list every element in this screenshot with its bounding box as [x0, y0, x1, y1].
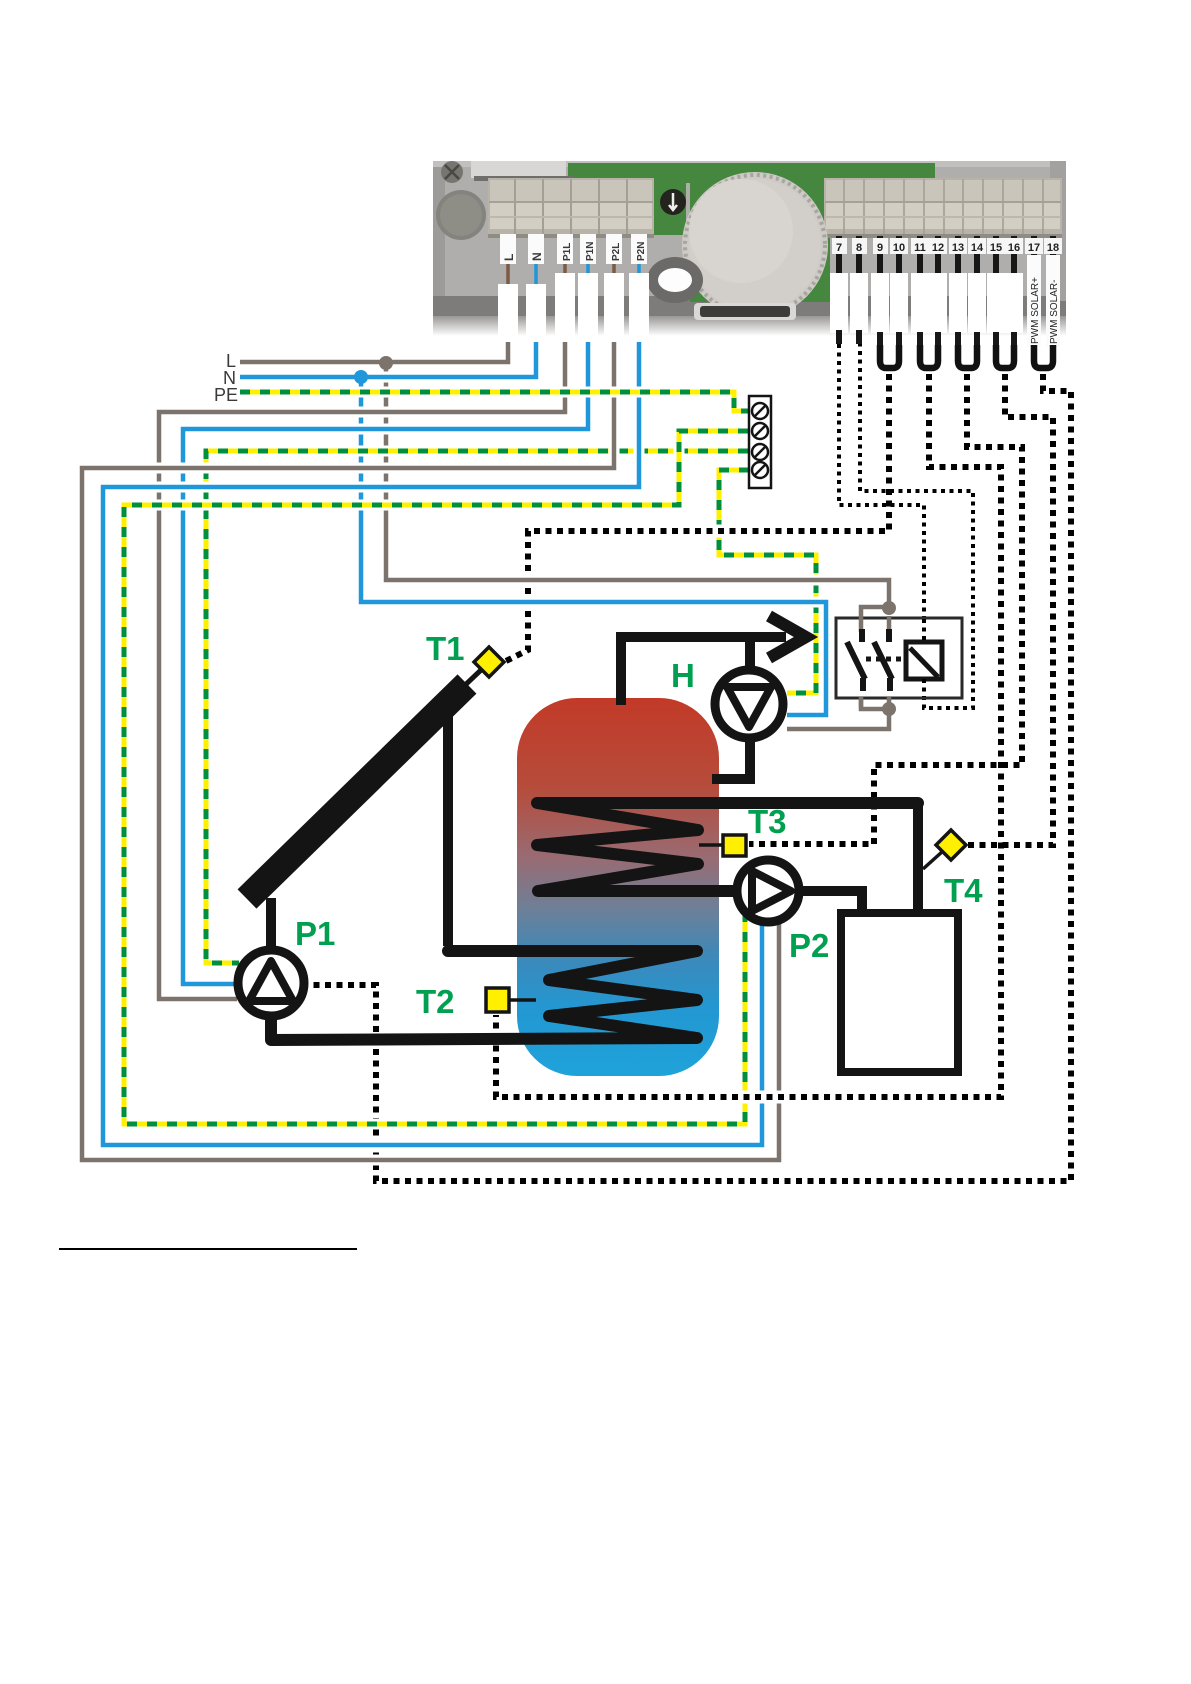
pipe collector supply to pump P1: [266, 898, 276, 952]
svg-text:N: N: [530, 252, 544, 261]
sensor wire T2 to terminals 11-12: [496, 374, 1053, 1097]
terminal tag N: [528, 234, 544, 264]
pump P2: [737, 860, 799, 922]
svg-text:PWM SOLAR-: PWM SOLAR-: [1049, 280, 1060, 344]
pump P1: [238, 950, 304, 1016]
screw with arrow: [660, 189, 686, 215]
wire P2L: [82, 342, 779, 1160]
wire PE pump P1: [206, 451, 748, 963]
terminal number tags 7-18: [832, 238, 1062, 254]
wire N to pump H: [361, 379, 826, 715]
svg-text:17: 17: [1028, 242, 1040, 254]
relay linkage: [866, 657, 906, 662]
sensor T2: [486, 988, 536, 1012]
sensor wire T1 to terminals 9-10: [311, 344, 1071, 1181]
screw top-left: [441, 161, 463, 183]
right black wire stubs below masks: [839, 330, 1014, 348]
svg-text:P1N: P1N: [585, 242, 596, 261]
wire PE to pump H: [719, 470, 816, 693]
left wire stubs: [508, 236, 639, 284]
relay coil: [906, 642, 942, 679]
pipe pump H return to tank: [712, 736, 750, 779]
wire P1L: [159, 342, 565, 999]
pipe tank top riser: [616, 632, 626, 705]
pipe collector to lower coil: [443, 690, 453, 946]
svg-text:15: 15: [990, 242, 1002, 254]
svg-text:T2: T2: [416, 983, 455, 1020]
terminal tag P1N: [580, 234, 596, 264]
left terminal block: [488, 178, 654, 236]
svg-text:P2: P2: [789, 927, 829, 964]
arrowhead: [769, 616, 806, 658]
sensor T1: [474, 647, 504, 677]
storage tank: [517, 698, 719, 1076]
svg-text:P1L: P1L: [562, 243, 573, 261]
right wire stubs terminals 7-18: [839, 236, 1053, 274]
svg-text:13: 13: [952, 242, 964, 254]
svg-text:12: 12: [932, 242, 944, 254]
jumper U terminals 17-18: [1034, 345, 1053, 368]
jumper U terminals 15-16: [996, 345, 1014, 368]
white mask channels right: [830, 273, 1023, 333]
svg-text:7: 7: [836, 242, 842, 254]
pipe riser to boiler: [913, 800, 923, 913]
pump H: [715, 670, 783, 738]
svg-text:11: 11: [914, 242, 926, 254]
jumper U terminals 9-10: [880, 345, 899, 368]
svg-text:T1: T1: [426, 630, 465, 667]
sensor wire T3 to terminals 13-14: [749, 374, 1022, 844]
relay coil wire terminal 7: [839, 344, 924, 641]
node L junction: [379, 356, 393, 370]
wire P2N: [103, 342, 762, 1145]
terminal tag P2L: [606, 234, 622, 264]
svg-text:P2L: P2L: [611, 243, 622, 261]
svg-text:PE: PE: [214, 385, 238, 405]
wire relay output to pump H: [787, 698, 889, 729]
svg-text:16: 16: [1008, 242, 1020, 254]
svg-text:14: 14: [971, 242, 984, 254]
footnote rule: [59, 1248, 357, 1250]
PWM wire terminals 17-18 to pump P1: [311, 374, 1071, 1181]
controller photo body: [433, 161, 1066, 301]
bottom connector slot: [694, 303, 796, 320]
node relay top junction: [882, 601, 896, 615]
wire relay contact branch: [861, 607, 889, 619]
buzzer disc: [682, 172, 828, 318]
svg-text:8: 8: [856, 242, 862, 254]
wire PE pump P2: [124, 431, 748, 1124]
svg-text:9: 9: [877, 242, 883, 254]
pipe branch to pump H: [745, 637, 755, 672]
svg-text:P2N: P2N: [636, 242, 647, 261]
washer left: [436, 190, 486, 240]
white mask channels left: [498, 273, 649, 342]
PE terminal strip: [749, 396, 771, 488]
sensor T3: [699, 835, 746, 856]
node N junction: [354, 370, 368, 384]
relay grey stubs top: [861, 616, 889, 632]
upper heat exchanger coil: [537, 803, 918, 891]
relay contact 2: [874, 629, 892, 691]
wire N bus: [240, 342, 536, 377]
svg-text:10: 10: [893, 242, 905, 254]
wire P1N: [183, 342, 588, 984]
oval grommet: [647, 257, 703, 303]
svg-text:PWM SOLAR+: PWM SOLAR+: [1030, 277, 1041, 344]
terminal tag L: [500, 234, 516, 264]
svg-text:T3: T3: [748, 803, 787, 840]
lower heat exchanger coil: [271, 951, 697, 1040]
svg-text:L: L: [502, 254, 516, 261]
relay coil wire inside box: [922, 619, 926, 697]
pipe pump P2 to boiler: [797, 891, 862, 913]
relay coil return wire terminal 8: [860, 344, 973, 708]
wire L feed to relay: [386, 364, 889, 608]
pipe flow to heating with arrow: [616, 632, 786, 642]
relay grey stubs bottom: [861, 697, 889, 710]
terminal tag P2N: [631, 234, 647, 264]
relay box: [836, 618, 962, 698]
terminal tag P1L: [557, 234, 573, 264]
node relay bottom junction: [882, 702, 896, 716]
svg-text:T4: T4: [944, 872, 983, 909]
PWM SOLAR+ tag: [1027, 255, 1041, 347]
bright top-left plate: [471, 161, 566, 178]
svg-text:P1: P1: [295, 915, 335, 952]
solar collector panel: [247, 684, 467, 899]
wire L bus: [240, 342, 508, 362]
PWM SOLAR- tag: [1046, 255, 1060, 347]
relay contact 1: [847, 629, 865, 691]
PCB green board: [568, 163, 935, 183]
jumper U terminals 11-12: [920, 345, 938, 368]
jumper U terminals 13-14: [958, 345, 977, 368]
svg-text:18: 18: [1047, 242, 1059, 254]
sensor T4: [923, 830, 966, 869]
collector sensor stem: [462, 670, 481, 688]
wire PE bus to PE block: [240, 392, 748, 411]
svg-text:H: H: [671, 657, 695, 694]
right terminal block: [824, 178, 1062, 236]
boiler box: [841, 913, 958, 1072]
sensor wire T4 to terminals 15-16: [968, 374, 1053, 845]
